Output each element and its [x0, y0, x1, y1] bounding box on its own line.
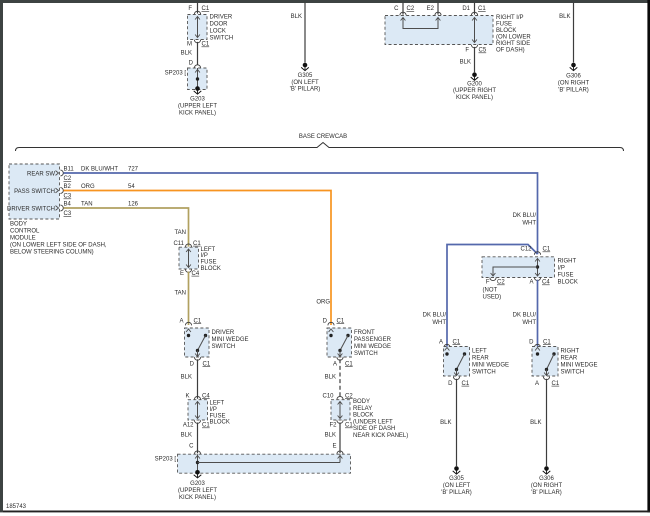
svg-text:BLK: BLK — [325, 375, 336, 381]
svg-text:SWITCH: SWITCH — [472, 370, 496, 376]
svg-text:RIGHT: RIGHT — [558, 258, 577, 264]
svg-text:BLOCK: BLOCK — [496, 28, 516, 34]
svg-text:C4: C4 — [542, 280, 550, 286]
svg-text:WHT: WHT — [432, 320, 446, 326]
wire BLK to G305 — [456, 379, 458, 466]
svg-text:'B' PILLAR): 'B' PILLAR) — [290, 87, 321, 93]
svg-text:C1: C1 — [345, 361, 353, 367]
svg-text:SP203 [: SP203 [ — [155, 457, 177, 463]
svg-text:DK BLU/: DK BLU/ — [423, 313, 447, 319]
top page border — [0, 0, 648, 3]
svg-text:C: C — [394, 6, 399, 12]
svg-text:C2: C2 — [407, 6, 415, 12]
svg-text:126: 126 — [128, 201, 139, 207]
svg-text:RIGHT: RIGHT — [561, 349, 580, 355]
svg-text:D: D — [189, 60, 194, 66]
left page border — [0, 0, 3, 512]
svg-text:LEFT: LEFT — [472, 349, 487, 355]
svg-text:D: D — [448, 381, 453, 387]
svg-text:BLK: BLK — [440, 420, 451, 426]
svg-text:ORG: ORG — [81, 184, 95, 190]
svg-text:C1: C1 — [194, 318, 202, 324]
wire stub from top to driver door lock switch pin F — [197, 3, 199, 14]
svg-text:RIGHT SIDE: RIGHT SIDE — [496, 41, 530, 47]
svg-text:C4: C4 — [192, 271, 200, 277]
svg-text:F: F — [188, 6, 192, 12]
right I/P fuse block #2 box — [482, 257, 555, 278]
svg-text:C5: C5 — [479, 48, 487, 54]
svg-text:G203: G203 — [190, 481, 205, 487]
ground G203 (bottom) — [195, 470, 200, 475]
svg-text:NEAR KICK PANEL): NEAR KICK PANEL) — [353, 433, 408, 439]
internal double arrow — [188, 249, 190, 268]
svg-text:C2: C2 — [497, 280, 505, 286]
SP203 internal wires — [197, 454, 199, 472]
svg-text:MINI WEDGE: MINI WEDGE — [354, 344, 391, 350]
ground G200 — [472, 72, 477, 77]
svg-text:SWITCH: SWITCH — [212, 344, 236, 350]
svg-text:DRIVER: DRIVER — [212, 330, 235, 336]
svg-text:DK BLU/WHT: DK BLU/WHT — [81, 166, 118, 172]
svg-text:A: A — [529, 280, 533, 286]
splice SP203 box (bottom strip) — [178, 454, 351, 473]
svg-text:'B' PILLAR): 'B' PILLAR) — [558, 88, 589, 94]
svg-text:C3: C3 — [64, 211, 72, 217]
svg-text:C3: C3 — [64, 194, 72, 200]
svg-text:MODULE: MODULE — [10, 236, 36, 242]
svg-text:BASE CREWCAB: BASE CREWCAB — [299, 134, 347, 140]
switch contacts and blade — [186, 329, 191, 332]
internal through-path D1 to F — [474, 18, 476, 43]
svg-text:BLOCK: BLOCK — [558, 279, 578, 285]
svg-text:TAN: TAN — [81, 201, 93, 207]
svg-text:BLK: BLK — [181, 51, 192, 57]
svg-text:C1: C1 — [202, 423, 210, 429]
svg-text:C11: C11 — [173, 241, 184, 247]
svg-text:(UNDER LEFT: (UNDER LEFT — [353, 419, 393, 425]
bottom page border — [3, 511, 650, 513]
svg-text:C1: C1 — [202, 6, 210, 12]
svg-text:BELOW STEERING COLUMN): BELOW STEERING COLUMN) — [10, 250, 94, 256]
svg-text:(NOT: (NOT — [483, 288, 498, 294]
wire stub pin D1 — [474, 3, 476, 15]
svg-text:BLK: BLK — [181, 433, 192, 439]
svg-text:BLK: BLK — [530, 420, 541, 426]
svg-text:SIDE OF DASH: SIDE OF DASH — [353, 426, 395, 432]
svg-text:E2: E2 — [427, 6, 435, 12]
splice SP203 box (top) — [188, 68, 208, 90]
svg-text:C1: C1 — [337, 318, 345, 324]
wire BLK to G306 right B pillar — [573, 3, 575, 63]
svg-text:I/P: I/P — [201, 253, 208, 259]
svg-text:(ON LEFT: (ON LEFT — [291, 80, 319, 86]
svg-text:LEFT: LEFT — [210, 401, 225, 407]
svg-text:BODY: BODY — [353, 399, 370, 405]
svg-text:G200: G200 — [467, 82, 482, 88]
svg-text:(UPPER LEFT: (UPPER LEFT — [178, 104, 217, 110]
svg-text:185743: 185743 — [6, 504, 27, 510]
svg-text:RELAY: RELAY — [353, 406, 372, 412]
svg-text:KICK PANEL): KICK PANEL) — [456, 95, 493, 101]
svg-text:FUSE: FUSE — [201, 260, 217, 266]
svg-text:E: E — [332, 443, 336, 449]
body control module BCM box — [9, 164, 60, 219]
wire BLK to SP203 pin E — [339, 423, 341, 454]
svg-text:G305: G305 — [298, 73, 313, 79]
wire TAN to driver switch — [188, 272, 190, 326]
body relay block box — [331, 400, 350, 420]
svg-text:SP203 [: SP203 [ — [165, 71, 187, 77]
svg-text:WHT: WHT — [522, 221, 536, 227]
svg-text:KICK PANEL): KICK PANEL) — [179, 111, 216, 117]
svg-text:G305: G305 — [449, 476, 464, 482]
svg-text:A: A — [535, 381, 539, 387]
svg-text:FUSE: FUSE — [496, 22, 512, 28]
ground G306 (top) — [571, 63, 576, 68]
svg-text:CONTROL: CONTROL — [10, 229, 40, 235]
svg-text:B11: B11 — [64, 166, 75, 172]
svg-text:E: E — [180, 271, 184, 277]
svg-text:SWITCH: SWITCH — [561, 370, 585, 376]
ground G305 (top) — [303, 63, 308, 68]
wire DK BLU/WHT circuit 727 from B11 — [64, 173, 538, 254]
right rear mini wedge switch box — [532, 347, 558, 377]
svg-text:(ON LEFT: (ON LEFT — [443, 483, 471, 489]
svg-text:FUSE: FUSE — [558, 272, 574, 278]
wire BLK F to G200 — [474, 47, 476, 72]
wire TAN circuit 126 from B4 — [64, 208, 189, 247]
svg-text:(ON LOWER: (ON LOWER — [496, 35, 531, 41]
ground G305 (bottom) — [454, 466, 459, 471]
ground G203 (top) — [195, 86, 200, 91]
svg-text:DK BLU/: DK BLU/ — [513, 213, 537, 219]
driver mini wedge switch box — [185, 328, 210, 357]
svg-text:DRIVER: DRIVER — [210, 15, 233, 21]
svg-text:BLK: BLK — [325, 433, 336, 439]
wire ORG circuit 54 from B2 — [64, 191, 332, 326]
ground G306 (bottom) — [544, 466, 549, 471]
wire BLK to G305 left B pillar — [304, 3, 306, 63]
dashed BLK wire passenger switch to body relay block — [339, 359, 341, 399]
driver door lock switch DDLS box — [188, 15, 208, 40]
svg-text:PASSENGER: PASSENGER — [354, 337, 392, 343]
svg-text:FRONT: FRONT — [354, 330, 375, 336]
svg-text:C1: C1 — [478, 6, 486, 12]
svg-text:BLK: BLK — [181, 375, 192, 381]
left I/P fuse block box (1) — [179, 247, 199, 269]
internal U link C to E2 — [403, 18, 438, 29]
left I/P fuse block box (2) — [188, 400, 208, 420]
svg-text:BLK: BLK — [460, 60, 471, 66]
wire BLK to SP203 — [197, 423, 199, 454]
svg-text:D: D — [323, 318, 328, 324]
svg-text:C1: C1 — [202, 42, 210, 48]
svg-text:SWITCH: SWITCH — [210, 36, 234, 42]
internal branch to pin F (not used) — [493, 267, 538, 276]
wire DK BLU/WHT to right rear switch — [537, 280, 539, 347]
DDLS internal double-headed arrow — [197, 17, 199, 38]
svg-text:MINI WEDGE: MINI WEDGE — [561, 363, 598, 369]
svg-text:DRIVER SWITCH: DRIVER SWITCH — [7, 206, 55, 212]
svg-text:727: 727 — [128, 166, 139, 172]
front passenger mini wedge switch box — [327, 328, 352, 357]
svg-text:F: F — [486, 280, 490, 286]
svg-text:MINI WEDGE: MINI WEDGE — [212, 337, 249, 343]
svg-text:(UPPER RIGHT: (UPPER RIGHT — [453, 88, 496, 94]
right page border — [647, 0, 650, 512]
svg-text:B4: B4 — [64, 201, 72, 207]
svg-text:RIGHT I/P: RIGHT I/P — [496, 15, 524, 21]
svg-text:F: F — [465, 48, 469, 54]
svg-text:C1: C1 — [453, 339, 461, 345]
svg-text:D: D — [190, 361, 195, 367]
wire BLK driver switch to fuse block — [197, 359, 199, 399]
svg-text:F2: F2 — [329, 423, 337, 429]
svg-text:LOCK: LOCK — [210, 29, 226, 35]
wire stub pin E2 — [437, 3, 439, 15]
svg-text:K: K — [185, 393, 189, 399]
svg-text:MINI WEDGE: MINI WEDGE — [472, 363, 509, 369]
svg-text:BLOCK: BLOCK — [201, 266, 221, 272]
BCM pin arcs — [60, 170, 63, 176]
svg-text:'B' PILLAR): 'B' PILLAR) — [531, 490, 562, 496]
left rear mini wedge switch box — [444, 347, 470, 377]
svg-text:C1: C1 — [462, 381, 470, 387]
svg-text:C10: C10 — [322, 393, 334, 399]
SP203 internal wire with junction — [197, 68, 199, 88]
svg-text:FUSE: FUSE — [210, 413, 226, 419]
svg-text:REAR SW: REAR SW — [27, 171, 55, 177]
svg-text:M: M — [187, 42, 192, 48]
svg-text:REAR: REAR — [472, 356, 489, 362]
svg-text:'B' PILLAR): 'B' PILLAR) — [441, 490, 472, 496]
svg-text:BLK: BLK — [559, 14, 570, 20]
svg-text:C1: C1 — [543, 247, 551, 253]
svg-text:A12: A12 — [183, 423, 194, 429]
BCM pin arrows — [56, 171, 59, 176]
svg-text:SWITCH: SWITCH — [354, 351, 378, 357]
svg-text:(ON LOWER LEFT SIDE OF DASH,: (ON LOWER LEFT SIDE OF DASH, — [10, 243, 107, 249]
svg-text:C1: C1 — [543, 339, 551, 345]
svg-text:A: A — [439, 339, 443, 345]
svg-text:D: D — [529, 339, 534, 345]
svg-text:C1: C1 — [552, 381, 560, 387]
svg-text:TAN: TAN — [174, 291, 186, 297]
wire stub pin C — [402, 3, 404, 15]
svg-text:REAR: REAR — [561, 356, 578, 362]
svg-text:B2: B2 — [64, 184, 72, 190]
svg-text:54: 54 — [128, 184, 135, 190]
crewcab bracket line — [16, 143, 624, 152]
internal through path with junction — [537, 259, 539, 277]
svg-text:PASS SWITCH: PASS SWITCH — [14, 189, 55, 195]
svg-text:OF DASH): OF DASH) — [496, 48, 525, 54]
wire BLK from M to SP203 — [197, 42, 199, 65]
svg-text:D1: D1 — [462, 6, 470, 12]
svg-text:KICK PANEL): KICK PANEL) — [179, 495, 216, 501]
svg-text:A: A — [179, 318, 183, 324]
svg-text:C: C — [189, 443, 194, 449]
svg-text:C12: C12 — [520, 247, 532, 253]
svg-text:LEFT: LEFT — [201, 247, 216, 253]
svg-text:C2: C2 — [64, 176, 72, 182]
svg-text:DOOR: DOOR — [210, 22, 229, 28]
svg-text:BLK: BLK — [291, 14, 302, 20]
svg-text:G306: G306 — [539, 476, 554, 482]
svg-text:(UPPER LEFT: (UPPER LEFT — [178, 488, 217, 494]
svg-text:BODY: BODY — [10, 222, 27, 228]
wire BLK to G306 — [546, 379, 548, 466]
svg-text:C1: C1 — [345, 423, 353, 429]
svg-text:(ON RIGHT: (ON RIGHT — [558, 81, 590, 87]
svg-text:C4: C4 — [202, 393, 210, 399]
svg-text:WHT: WHT — [522, 320, 536, 326]
svg-text:ORG: ORG — [316, 299, 330, 305]
svg-text:A: A — [333, 361, 337, 367]
svg-text:G203: G203 — [190, 97, 205, 103]
svg-text:USED): USED) — [483, 295, 502, 301]
svg-text:G306: G306 — [566, 74, 581, 80]
svg-text:I/P: I/P — [558, 265, 565, 271]
svg-text:TAN: TAN — [174, 230, 186, 236]
blue branch wire to left rear switch — [447, 245, 538, 347]
right I/P fuse block #1 box — [385, 16, 493, 45]
svg-text:(ON RIGHT: (ON RIGHT — [531, 483, 563, 489]
svg-text:BLOCK: BLOCK — [353, 413, 373, 419]
svg-text:BLOCK: BLOCK — [210, 420, 230, 426]
svg-text:C1: C1 — [203, 361, 211, 367]
svg-text:I/P: I/P — [210, 407, 217, 413]
svg-text:DK BLU/: DK BLU/ — [513, 313, 537, 319]
